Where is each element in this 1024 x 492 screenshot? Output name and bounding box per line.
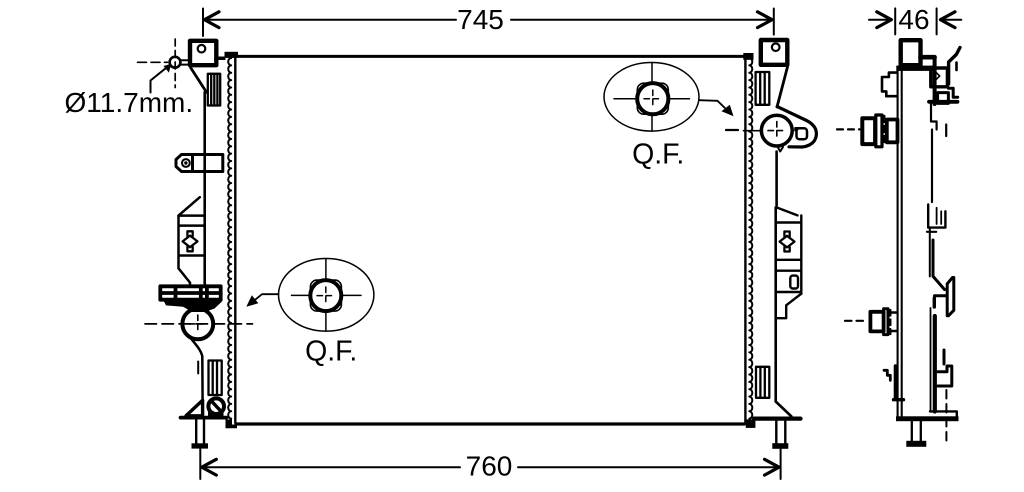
diameter leader line	[151, 67, 168, 92]
dimension 745 tick right	[773, 9, 775, 35]
right pin box hole	[772, 43, 780, 51]
right bracket	[777, 208, 802, 319]
left seam bottom notch	[226, 420, 238, 429]
side fitting1 neck	[887, 120, 898, 143]
left clip eye pin	[185, 162, 187, 164]
QF detail right vertical centerline	[651, 63, 653, 132]
QF detail left circle	[310, 280, 341, 311]
left pin centerline horizontal	[138, 61, 168, 63]
side right wall lower mid bold	[932, 240, 935, 276]
right lower rib stripes	[756, 367, 769, 398]
side leg foot	[906, 441, 926, 447]
side right wall upper mid	[931, 104, 937, 130]
side fitting2 neck	[891, 313, 898, 332]
right upper rib stripes	[756, 72, 770, 105]
right seam bottom notch	[746, 419, 756, 428]
dimension 745 arrowhead left	[205, 12, 220, 28]
right QF port centerline solid	[744, 130, 763, 132]
side pennant lower stub	[933, 298, 936, 307]
dimension 745 line left segment	[205, 19, 456, 21]
side clip box with diamond	[931, 68, 948, 87]
dimension 760 line right segment	[518, 466, 779, 468]
QF leader right	[699, 100, 728, 110]
side fitting2 outer box	[870, 312, 883, 332]
left bracket	[179, 197, 205, 286]
side right wall low thin	[930, 308, 932, 412]
side lower left clip bar	[894, 366, 897, 399]
right QF port plate hole notch	[795, 128, 800, 131]
view link dashes upper	[837, 128, 860, 130]
left upper rib stripes	[208, 74, 220, 106]
left drain bolt slash	[211, 401, 221, 412]
side upper left clip	[882, 73, 897, 97]
right QF port circle	[761, 115, 792, 146]
side fitting1 seam	[883, 116, 885, 146]
side clip diamond	[934, 73, 940, 79]
dimension 46 tick left	[894, 8, 896, 34]
QF detail left center cross	[317, 287, 335, 305]
QF detail right ellipse	[604, 63, 699, 132]
side u-clip inner	[937, 208, 942, 224]
left port circle	[182, 309, 213, 340]
side slab top bar	[896, 66, 935, 71]
right bracket keyhole	[780, 232, 795, 252]
svg-text:Q.F.: Q.F.	[632, 139, 684, 171]
QF leader left	[252, 294, 279, 303]
QF detail right square flange	[637, 83, 668, 114]
dimension 745 tick left	[202, 9, 204, 37]
left bracket keyhole	[183, 231, 198, 251]
left tank crimped seam	[228, 58, 231, 419]
QF detail left ellipse	[279, 259, 374, 332]
right seam top cap	[743, 53, 753, 60]
side lower left clip step	[884, 370, 890, 380]
QF detail right circle	[637, 83, 668, 114]
left drain bolt shadow	[208, 412, 224, 420]
QF detail left vertical centerline	[325, 259, 327, 332]
side fitting1 collar	[876, 115, 882, 147]
dimension 46 arrow right	[941, 12, 962, 28]
side lower right hook	[938, 366, 952, 386]
side fitting2 seam	[889, 310, 891, 334]
side lower left clip foot	[894, 398, 904, 401]
QF detail left square flange	[310, 280, 341, 311]
core bottom edge	[236, 422, 745, 425]
right leg	[776, 421, 785, 443]
left tank weld mark	[197, 362, 199, 374]
side pennant bracket	[933, 277, 954, 316]
dimension 760 arrowhead right	[765, 459, 780, 475]
dimension 760 line left segment	[202, 466, 460, 468]
core top edge	[227, 55, 745, 58]
side slab left wall inner	[901, 71, 903, 417]
left pin collar	[181, 60, 189, 64]
left tank top slope	[191, 68, 207, 92]
left port centerline	[145, 323, 253, 325]
right tank crimped seam	[749, 58, 752, 419]
right QF port center cross	[768, 122, 786, 140]
side leg	[912, 421, 921, 441]
svg-text:Ø11.7mm.: Ø11.7mm.	[65, 87, 194, 118]
QF detail right horizontal centerline	[614, 98, 690, 100]
side right wall lower mid	[929, 228, 931, 277]
left tank bottom plate	[181, 416, 227, 420]
left lower rib stripes	[209, 361, 222, 396]
left pin box hole	[198, 45, 206, 53]
left tank wall	[203, 92, 206, 286]
side slab left wall outer	[897, 71, 899, 417]
left clip eye	[182, 159, 190, 167]
right bracket hole	[790, 276, 798, 289]
left pin box connector	[219, 57, 226, 61]
right mounting pin box	[761, 40, 788, 65]
svg-text:46: 46	[898, 4, 929, 35]
right QF port lower notch	[777, 146, 783, 151]
view link dashes lower	[845, 320, 868, 322]
side u-clip	[928, 205, 945, 228]
left drain bolt	[208, 398, 224, 414]
left tank lower curve	[190, 337, 203, 401]
dimension 760 tick left	[199, 449, 201, 479]
QF detail left horizontal centerline	[292, 294, 362, 296]
right leg foot	[772, 443, 788, 449]
right tank wall lower	[774, 208, 777, 402]
side lower dashed centerline	[945, 390, 947, 441]
right tank bottom slope	[776, 402, 792, 417]
side clip bottom bar	[929, 100, 958, 104]
left leg	[196, 419, 204, 443]
right QF port plate	[777, 107, 816, 147]
svg-text:Q.F.: Q.F.	[305, 335, 357, 367]
QF detail right center cross	[644, 90, 662, 108]
side bottom step	[930, 411, 957, 416]
svg-text:760: 760	[466, 451, 513, 482]
diameter leader arrowhead	[164, 64, 172, 73]
left clip body	[193, 155, 223, 172]
left foot sole	[164, 302, 222, 313]
left clip head	[176, 155, 193, 172]
side right wall mid	[931, 130, 933, 203]
dimension 745 arrowhead right	[758, 12, 773, 28]
left foot bracket	[160, 286, 220, 299]
side right wall low bold	[933, 316, 937, 412]
QF leader left arrowhead	[246, 295, 258, 307]
side top hat bracket	[921, 55, 935, 60]
left bracket top edge	[179, 214, 205, 217]
dimension 760 tick right	[780, 449, 782, 479]
svg-text:745: 745	[457, 4, 504, 35]
left port center cross	[189, 315, 207, 333]
left seam top cap	[225, 52, 239, 58]
side top right hook	[949, 48, 960, 85]
right tank wall upper	[775, 152, 778, 208]
left pin centerline vertical	[174, 39, 176, 88]
side right wall top	[933, 57, 937, 104]
side clip lower box	[938, 93, 949, 104]
side top right hook tail	[955, 63, 958, 71]
dimension 46 tick right	[936, 8, 938, 34]
dimension 760 arrowhead left	[202, 459, 217, 475]
side lower right hook vertical	[943, 350, 946, 364]
side bottom bar	[896, 416, 959, 421]
core left edge	[234, 57, 236, 423]
left pin	[170, 57, 181, 68]
side fitting1 outer box	[862, 118, 875, 144]
left drain triangle	[186, 400, 203, 416]
right tank bottom flange	[754, 417, 801, 421]
right QF port plate hole	[797, 128, 808, 139]
dimension 46 arrow left	[869, 12, 891, 28]
right tank top slope	[777, 67, 788, 108]
side right wall stub	[945, 125, 947, 137]
left leg foot	[192, 443, 209, 448]
left mounting pin box	[190, 41, 216, 65]
side clip lower step	[948, 88, 957, 97]
side pin box	[901, 40, 921, 65]
QF leader right arrowhead	[722, 105, 734, 117]
side fitting2 collar	[884, 309, 888, 335]
side u-clip step	[927, 231, 936, 233]
right QF port centerline dashes	[726, 129, 738, 131]
core right edge	[744, 57, 746, 423]
dimension 745 line right segment	[511, 19, 772, 21]
